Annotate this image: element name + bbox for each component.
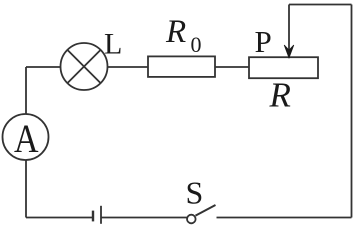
resistor R0 (148, 56, 215, 77)
svg-text:R: R (269, 76, 291, 115)
svg-text:0: 0 (191, 32, 202, 57)
wire top horizontal (289, 4, 352, 6)
wire lamp to R0 (108, 66, 149, 68)
wire R0 to rheostat (215, 66, 249, 68)
svg-text:R: R (165, 14, 186, 50)
svg-text:A: A (14, 117, 39, 161)
wire bottom left (26, 217, 93, 219)
wire ammeter lower vertical (25, 160, 27, 218)
svg-text:L: L (104, 28, 122, 61)
wire top-left horizontal (26, 66, 61, 68)
wire slider vertical (288, 5, 290, 51)
wire left vertical upper (25, 67, 27, 115)
slider arrowhead (284, 45, 294, 58)
battery positive long thin plate (100, 206, 102, 224)
ammeter A (3, 114, 49, 160)
svg-text:S: S (186, 175, 204, 211)
svg-text:P: P (255, 24, 272, 59)
wire right vertical (351, 5, 353, 218)
battery negative short thick plate (92, 211, 94, 222)
switch S (187, 205, 216, 223)
lamp L (61, 43, 108, 90)
wire switch to right corner (217, 217, 352, 219)
wire battery to switch (101, 217, 187, 219)
rheostat R body (249, 57, 318, 78)
